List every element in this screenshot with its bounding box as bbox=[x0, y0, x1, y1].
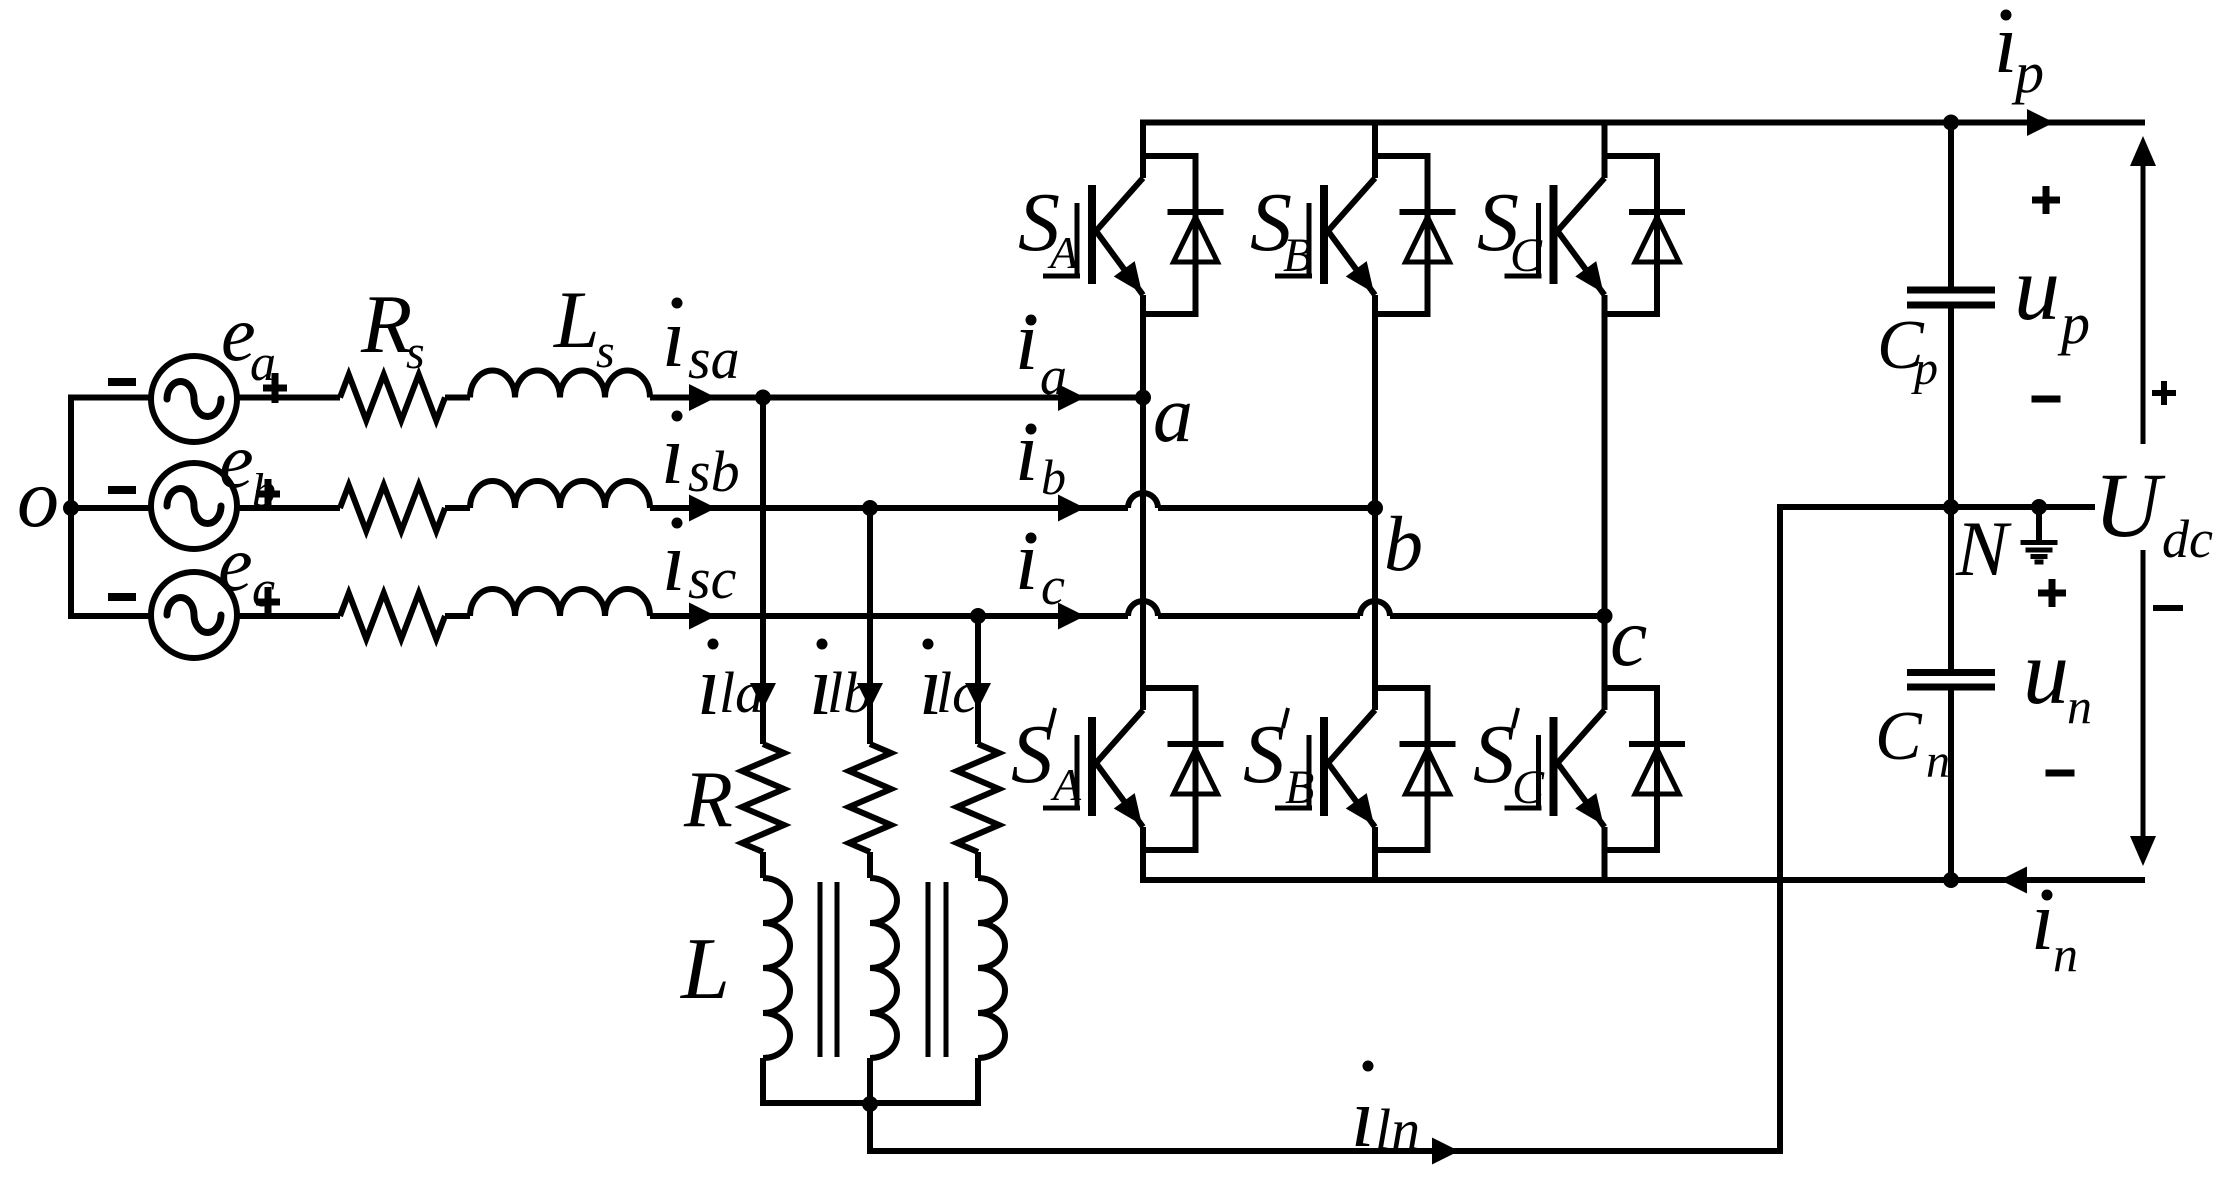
wire eb to Rs bbox=[238, 505, 340, 511]
label node b bbox=[1384, 500, 1423, 587]
svg-text:s: s bbox=[406, 326, 425, 379]
plus sign ec bbox=[256, 587, 280, 617]
wire neutral down bbox=[867, 1103, 873, 1151]
diode antiparallel lower B bbox=[1400, 744, 1456, 794]
svg-text:B: B bbox=[1285, 761, 1314, 814]
wire o to source eb bbox=[71, 505, 151, 511]
svg-text:S: S bbox=[1473, 708, 1515, 801]
junction dot ilc tap bbox=[970, 608, 986, 624]
wire R to L load phase a bbox=[760, 852, 766, 878]
wire Cn to bottom bus bbox=[1948, 690, 1954, 880]
label eb bbox=[219, 417, 276, 517]
label up bbox=[2014, 237, 2090, 356]
label Rs bbox=[360, 278, 425, 379]
svg-text:s: s bbox=[596, 325, 615, 378]
diode antiparallel upper C bbox=[1629, 212, 1685, 262]
wire collector split top B bbox=[1375, 153, 1431, 159]
label node a bbox=[1153, 371, 1193, 459]
junction dot ilb tap bbox=[862, 500, 878, 516]
wire N to Cn bbox=[1948, 507, 1954, 669]
resistor R load phase c bbox=[957, 744, 999, 852]
wire tap to load R phase c bbox=[975, 616, 981, 744]
label SA' bbox=[1011, 708, 1082, 810]
label ilc bbox=[919, 639, 978, 734]
transistor SB lower bbox=[1275, 710, 1384, 833]
wire emitter split bottom C bbox=[1605, 847, 1661, 853]
ac source ec bbox=[151, 572, 237, 658]
wire iln horizontal bbox=[867, 1148, 1783, 1154]
wire R to L load phase b bbox=[867, 852, 873, 878]
svg-text:e: e bbox=[219, 417, 254, 504]
svg-text:ı: ı bbox=[1015, 294, 1039, 388]
svg-text:L: L bbox=[553, 274, 600, 365]
arrow ilc bbox=[965, 683, 991, 709]
label N bbox=[1955, 505, 2012, 592]
inductor Ls phase c bbox=[470, 589, 650, 616]
transistor SA upper bbox=[1043, 178, 1152, 301]
svg-text:A: A bbox=[1047, 227, 1079, 278]
svg-text:la: la bbox=[719, 660, 764, 725]
ac source ea bbox=[151, 356, 237, 442]
plus sign un bbox=[2038, 579, 2066, 607]
wire Rs to Ls phase c bbox=[445, 613, 470, 619]
arrow ip bbox=[2027, 109, 2054, 136]
label ip bbox=[1994, 0, 2044, 105]
svg-text:sc: sc bbox=[688, 546, 737, 611]
junction dot ground tap bbox=[2031, 499, 2047, 515]
svg-text:n: n bbox=[2067, 678, 2092, 734]
svg-text:u: u bbox=[2014, 237, 2060, 339]
wire diode branch bottom B bbox=[1425, 688, 1431, 850]
wire Ls to hop phase c bbox=[650, 613, 1128, 619]
node a dot bbox=[1135, 390, 1151, 406]
wire Cp to N bus bbox=[1948, 308, 1954, 507]
label SB' bbox=[1243, 708, 1314, 814]
svg-text:S: S bbox=[1011, 708, 1053, 801]
inductor Ls phase b bbox=[470, 481, 650, 508]
wire neutral to N bbox=[1777, 504, 2095, 510]
label isb bbox=[661, 408, 740, 504]
svg-text:C: C bbox=[1875, 698, 1923, 775]
junction dot load neutral bbox=[862, 1096, 878, 1112]
wire left neutral bus bbox=[68, 395, 74, 620]
wire L to neutral bar phase a bbox=[760, 1058, 766, 1103]
svg-text:lb: lb bbox=[827, 660, 872, 725]
svg-text:S: S bbox=[1243, 708, 1285, 801]
svg-text:R: R bbox=[360, 278, 412, 371]
plus sign eb bbox=[256, 479, 280, 509]
hop of phase c over leg B bbox=[1360, 601, 1390, 616]
wire diode branch top C bbox=[1654, 156, 1660, 314]
wire leg B bottom bbox=[1372, 827, 1378, 880]
diode antiparallel upper B bbox=[1400, 212, 1456, 262]
wire collector split bottom A bbox=[1143, 685, 1199, 691]
inductor L load phase a bbox=[763, 878, 790, 1058]
svg-text:ln: ln bbox=[1375, 1097, 1420, 1162]
svg-text:ı: ı bbox=[1015, 405, 1039, 499]
wire hop to node b bbox=[1158, 505, 1375, 511]
plus sign ea bbox=[263, 373, 287, 403]
svg-text:c: c bbox=[1041, 556, 1065, 616]
resistor Rs phase a bbox=[340, 375, 445, 421]
wire hop to node c bbox=[1390, 613, 1605, 619]
diode antiparallel lower C bbox=[1629, 744, 1685, 794]
arrow ia bbox=[1058, 384, 1085, 411]
wire collector split bottom C bbox=[1605, 685, 1661, 691]
label Cn bbox=[1875, 698, 1950, 788]
svg-text:ı: ı bbox=[661, 408, 685, 502]
label SC' bbox=[1473, 708, 1545, 814]
hop of phase b over leg A bbox=[1128, 493, 1158, 508]
wire top bus to Cp bbox=[1948, 123, 1954, 288]
wire leg C top bbox=[1602, 123, 1608, 179]
wire leg B middle bbox=[1372, 295, 1378, 710]
node c dot bbox=[1597, 608, 1613, 624]
label SB bbox=[1250, 176, 1312, 282]
wire o to source ec bbox=[71, 613, 151, 619]
arrow isc bbox=[689, 603, 716, 630]
inductor core bars bc bbox=[928, 882, 946, 1057]
svg-text:c: c bbox=[252, 561, 275, 618]
arrow iln bbox=[1432, 1138, 1459, 1165]
wire bottom dc bus bbox=[1140, 877, 2145, 883]
svg-text:a: a bbox=[250, 335, 276, 392]
label isa bbox=[662, 291, 740, 391]
wire R to L load phase c bbox=[975, 852, 981, 878]
resistor Rs phase b bbox=[340, 485, 445, 531]
wire leg C middle bbox=[1602, 295, 1608, 710]
label ia bbox=[1015, 294, 1067, 406]
wire ea to Rs bbox=[238, 395, 340, 401]
svg-text:ı: ı bbox=[662, 515, 686, 609]
wire L to neutral bar phase b bbox=[867, 1058, 873, 1103]
arrow ic bbox=[1058, 603, 1085, 630]
wire Rs to Ls phase a bbox=[445, 395, 470, 401]
wire Rs to Ls phase b bbox=[445, 505, 470, 511]
minus sign ea bbox=[108, 378, 136, 386]
wire top dc bus bbox=[1140, 120, 2145, 126]
arrow Udc bottom bbox=[2130, 550, 2156, 866]
wire ec to Rs bbox=[238, 613, 340, 619]
junction dot N bbox=[1943, 499, 1959, 515]
svg-text:ı: ı bbox=[1351, 1071, 1375, 1165]
svg-text:p: p bbox=[2011, 40, 2044, 105]
resistor Rs phase c bbox=[340, 593, 445, 639]
wire neutral return up bbox=[1777, 504, 1783, 1154]
junction dot top cap bbox=[1943, 115, 1959, 131]
svg-text:u: u bbox=[2023, 621, 2069, 723]
ground symbol bbox=[2021, 507, 2058, 562]
arrow isb bbox=[689, 495, 716, 522]
wire o to source ea bbox=[71, 395, 151, 401]
svg-text:lc: lc bbox=[936, 660, 978, 725]
arrow ib bbox=[1058, 495, 1085, 522]
plus sign Udc bbox=[2152, 381, 2176, 405]
inductor L load phase b bbox=[870, 878, 897, 1058]
minus sign eb bbox=[108, 486, 136, 494]
transistor SC upper bbox=[1505, 178, 1614, 301]
label L load bbox=[679, 921, 730, 1018]
label SC bbox=[1477, 176, 1543, 282]
label isc bbox=[662, 515, 737, 611]
ac source eb bbox=[151, 463, 237, 549]
label Ls bbox=[553, 274, 615, 378]
wire emitter split bottom A bbox=[1143, 847, 1199, 853]
svg-text:a: a bbox=[1153, 371, 1193, 459]
label R load bbox=[683, 756, 733, 844]
wire collector split top C bbox=[1605, 153, 1661, 159]
svg-text:ı: ı bbox=[1015, 514, 1039, 608]
svg-text:n: n bbox=[1926, 735, 1950, 788]
junction dot bottom cap bbox=[1943, 872, 1959, 888]
transistor SB upper bbox=[1275, 178, 1384, 301]
wire leg A top bbox=[1140, 123, 1146, 179]
wire leg A bottom bbox=[1140, 827, 1146, 880]
wire emitter split top B bbox=[1375, 311, 1431, 317]
svg-text:B: B bbox=[1283, 229, 1312, 282]
label SA bbox=[1018, 176, 1079, 278]
node b dot bbox=[1367, 500, 1383, 516]
minus sign ec bbox=[108, 593, 136, 601]
svg-text:ı: ı bbox=[662, 291, 686, 385]
svg-text:sb: sb bbox=[688, 439, 740, 504]
label ea bbox=[221, 290, 276, 392]
wire load neutral bar bbox=[760, 1100, 981, 1106]
svg-text:n: n bbox=[2053, 926, 2078, 982]
label ila bbox=[697, 639, 764, 734]
arrow in bbox=[2000, 867, 2027, 894]
wire collector split bottom B bbox=[1375, 685, 1431, 691]
plus sign up bbox=[2032, 186, 2060, 214]
label iln bbox=[1351, 1061, 1420, 1166]
label ilb bbox=[809, 639, 872, 734]
svg-text:e: e bbox=[218, 520, 253, 607]
svg-text:R: R bbox=[683, 756, 733, 844]
svg-text:o: o bbox=[17, 452, 59, 545]
wire L to neutral bar phase c bbox=[975, 1058, 981, 1103]
label Cp bbox=[1877, 307, 1938, 395]
wire leg C bottom bbox=[1602, 827, 1608, 880]
diode antiparallel lower A bbox=[1168, 744, 1224, 794]
wire collector split top A bbox=[1143, 153, 1199, 159]
capacitor Cn bbox=[1907, 673, 1995, 688]
wire diode branch top B bbox=[1425, 156, 1431, 314]
wire Ls to node a bbox=[650, 395, 1143, 401]
node o junction dot bbox=[17, 452, 79, 545]
hop of phase c over leg A bbox=[1128, 601, 1158, 616]
wire Ls to hop phase b bbox=[650, 505, 1128, 511]
svg-text:ı: ı bbox=[697, 639, 721, 733]
svg-text:a: a bbox=[1040, 346, 1067, 406]
label ic bbox=[1015, 514, 1065, 616]
label in bbox=[2031, 874, 2078, 982]
transistor SC lower bbox=[1505, 710, 1614, 833]
inductor L load phase c bbox=[978, 878, 1005, 1058]
label Udc bbox=[2094, 454, 2213, 569]
svg-text:N: N bbox=[1955, 505, 2012, 592]
label node c bbox=[1610, 591, 1647, 684]
wire diode branch top A bbox=[1193, 156, 1199, 314]
wire emitter split top A bbox=[1143, 311, 1199, 317]
arrow isa bbox=[689, 384, 716, 411]
resistor R load phase a bbox=[742, 744, 784, 852]
svg-text:U: U bbox=[2094, 454, 2166, 556]
svg-text:ı: ı bbox=[2031, 874, 2055, 968]
arrow Udc top bbox=[2130, 136, 2156, 444]
label ib bbox=[1015, 405, 1066, 505]
svg-text:C: C bbox=[1512, 761, 1545, 814]
junction dot ila tap bbox=[755, 390, 771, 406]
wire tap to load R phase a bbox=[760, 398, 766, 745]
svg-text:b: b bbox=[1384, 500, 1423, 587]
svg-text:C: C bbox=[1510, 229, 1543, 282]
svg-text:L: L bbox=[679, 921, 730, 1018]
svg-text:A: A bbox=[1050, 759, 1082, 810]
label un bbox=[2023, 621, 2092, 734]
wire diode branch bottom C bbox=[1654, 688, 1660, 850]
wire leg A middle bbox=[1140, 295, 1146, 710]
capacitor Cp bbox=[1907, 290, 1995, 305]
resistor R load phase b bbox=[849, 744, 891, 852]
wire tap to load R phase b bbox=[867, 508, 873, 744]
wire emitter split bottom B bbox=[1375, 847, 1431, 853]
wire diode branch bottom A bbox=[1193, 688, 1199, 850]
inductor core bars ab bbox=[820, 882, 837, 1057]
svg-text:c: c bbox=[1610, 591, 1647, 684]
transistor SA lower bbox=[1043, 710, 1152, 833]
diode antiparallel upper A bbox=[1168, 212, 1224, 262]
svg-text:dc: dc bbox=[2162, 509, 2213, 569]
inductor Ls phase a bbox=[470, 371, 650, 398]
arrow ila bbox=[750, 683, 776, 709]
arrow ilb bbox=[857, 683, 883, 709]
minus sign Udc bbox=[2153, 605, 2183, 611]
svg-text:b: b bbox=[1041, 449, 1066, 505]
wire emitter split top C bbox=[1605, 311, 1661, 317]
svg-text:p: p bbox=[1911, 342, 1938, 395]
minus sign un bbox=[2046, 770, 2075, 777]
wire hop to hop phase c bbox=[1158, 613, 1360, 619]
minus sign up bbox=[2032, 396, 2061, 403]
svg-text:p: p bbox=[2057, 291, 2090, 356]
label ec bbox=[218, 520, 275, 618]
wire leg B top bbox=[1372, 123, 1378, 179]
svg-text:sa: sa bbox=[688, 326, 740, 391]
